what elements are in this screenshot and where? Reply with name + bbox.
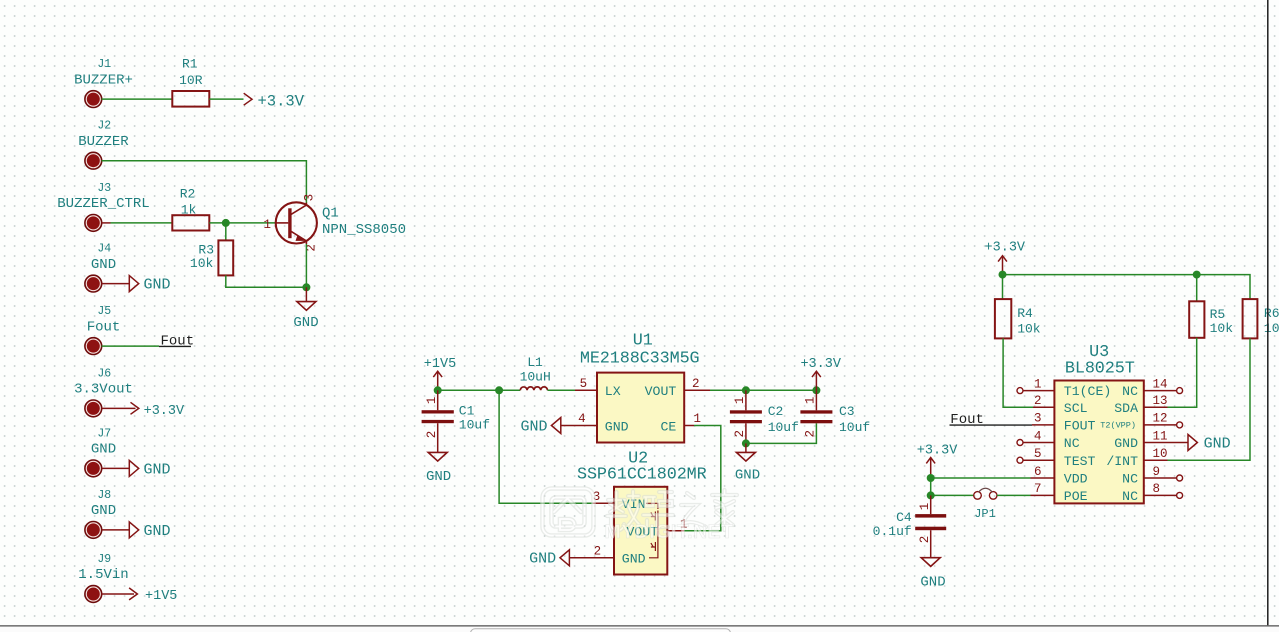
status bar divider bbox=[0, 625, 1279, 627]
connector J1 pad bbox=[85, 91, 102, 108]
svg-text:J9: J9 bbox=[97, 553, 111, 566]
U3 pin 5 stub unconnected bbox=[1023, 459, 1054, 461]
sheet border line bbox=[1267, 0, 1269, 625]
node rail junction R5 bbox=[1193, 271, 1201, 279]
svg-text:MYDIGIT.NET: MYDIGIT.NET bbox=[604, 521, 733, 543]
svg-text:10R: 10R bbox=[179, 73, 203, 88]
resistor R5 bbox=[1189, 301, 1233, 338]
svg-text:1: 1 bbox=[803, 397, 817, 405]
scrollbar track bbox=[0, 627, 1279, 632]
transistor Q1 NPN_SS8050 bbox=[276, 202, 317, 244]
connector J9 pad bbox=[85, 586, 102, 603]
U3 pin 3 stub bbox=[1032, 424, 1054, 426]
wire emitter node to ground bbox=[305, 287, 307, 301]
svg-text:5: 5 bbox=[1034, 447, 1042, 461]
svg-text:1: 1 bbox=[733, 397, 747, 405]
svg-text:3.3Vout: 3.3Vout bbox=[74, 382, 133, 398]
svg-text:LX: LX bbox=[605, 384, 621, 399]
watermark logo bbox=[543, 489, 738, 544]
svg-text:BUZZER+: BUZZER+ bbox=[74, 72, 133, 88]
U3 pin 10 stub bbox=[1144, 459, 1168, 461]
svg-text:GND: GND bbox=[622, 552, 646, 567]
node +3.3V junction R4 bbox=[999, 271, 1007, 279]
svg-text:SDA: SDA bbox=[1114, 401, 1138, 416]
svg-text:GND: GND bbox=[144, 523, 171, 540]
svg-text:GND: GND bbox=[520, 418, 547, 435]
svg-text:+3.3V: +3.3V bbox=[985, 240, 1026, 255]
connector J4 label bbox=[91, 243, 116, 273]
U3 left pin names bbox=[1064, 384, 1111, 504]
hierarchical label GND at U3 pin 11 bbox=[1188, 435, 1231, 453]
svg-text:+3.3V: +3.3V bbox=[800, 357, 841, 372]
connector J1 label bbox=[74, 58, 133, 88]
svg-text:C4: C4 bbox=[896, 510, 912, 525]
U1 CE pin stub bbox=[684, 425, 694, 427]
wire R3 to emitter node bbox=[226, 275, 307, 287]
svg-text:10uf: 10uf bbox=[459, 418, 490, 433]
svg-text:BL8025T: BL8025T bbox=[1065, 360, 1135, 379]
U2 reference labels bbox=[577, 449, 707, 484]
svg-text:J1: J1 bbox=[97, 58, 111, 71]
chip U1 body bbox=[597, 373, 684, 443]
connector J5 pad bbox=[85, 338, 102, 355]
svg-text:5: 5 bbox=[580, 377, 588, 391]
svg-text:R5: R5 bbox=[1210, 307, 1226, 322]
svg-text:10k: 10k bbox=[1210, 321, 1234, 336]
U3 pin 13 stub bbox=[1144, 406, 1168, 408]
connector J7 label bbox=[91, 427, 116, 457]
svg-text:0.1uf: 0.1uf bbox=[873, 524, 912, 539]
resistor R2 bbox=[172, 187, 209, 231]
wire VDD rail bbox=[931, 477, 1031, 479]
U3 right pin names bbox=[1100, 384, 1138, 504]
J4 pin stub bbox=[102, 283, 130, 285]
ground symbol at C1 bbox=[426, 452, 451, 485]
svg-text:POE: POE bbox=[1064, 489, 1088, 504]
svg-text:6: 6 bbox=[1034, 465, 1042, 479]
resistor R6 bbox=[1243, 299, 1279, 338]
J7 pin stub bbox=[102, 467, 130, 469]
hierarchical label GND at J4 bbox=[129, 276, 170, 294]
wire Q1 emitter down bbox=[305, 244, 307, 287]
hierarchical label GND at J8 bbox=[129, 522, 170, 540]
svg-text:C3: C3 bbox=[839, 404, 855, 419]
ground stub at C2 bbox=[745, 443, 747, 452]
svg-text:+3.3V: +3.3V bbox=[258, 92, 305, 110]
connector J7 pad bbox=[85, 460, 102, 477]
svg-text:Q1: Q1 bbox=[322, 205, 339, 221]
U2 VIN pin stub bbox=[593, 502, 614, 504]
svg-text:J5: J5 bbox=[97, 305, 111, 318]
svg-text:CE: CE bbox=[660, 419, 676, 434]
inductor L1 bbox=[520, 355, 551, 390]
ground symbol at C2 bbox=[735, 452, 760, 483]
U2 internal mosfets bbox=[646, 503, 658, 558]
wire R4 bottom to U3 SCL bbox=[1003, 338, 1033, 407]
wire U1 VOUT to +3.3V bbox=[710, 389, 816, 391]
wire +1V5 to L1 bbox=[438, 389, 521, 391]
svg-text:12: 12 bbox=[1153, 412, 1168, 426]
wire J5 pad to Fout label bbox=[102, 345, 160, 347]
J8 pin stub bbox=[102, 529, 130, 531]
connector J8 pad bbox=[85, 522, 102, 539]
wire C2 bottom to C3 bottom bbox=[746, 423, 817, 443]
wire R5 bottom to U3 SDA bbox=[1168, 338, 1197, 407]
node LX branch junction bbox=[495, 386, 503, 394]
connector J6 pad bbox=[85, 400, 102, 417]
U1 LX pin stub bbox=[575, 389, 597, 391]
svg-text:1: 1 bbox=[918, 503, 932, 511]
node +1V5 junction bbox=[434, 386, 442, 394]
svg-text:J7: J7 bbox=[97, 427, 111, 440]
connector J3 label bbox=[57, 182, 149, 212]
svg-text:GND: GND bbox=[1114, 436, 1138, 451]
ground symbol at C4 bbox=[920, 558, 945, 591]
J6 power arrow line bbox=[102, 407, 136, 409]
U1 reference labels bbox=[580, 332, 700, 369]
svg-text:4: 4 bbox=[1034, 429, 1042, 443]
U3 pin 2 stub bbox=[1033, 406, 1054, 408]
U1 VOUT pin stub bbox=[684, 389, 710, 391]
svg-text:2: 2 bbox=[918, 536, 932, 544]
node base junction bbox=[222, 219, 230, 227]
svg-text:NC: NC bbox=[1122, 384, 1138, 399]
svg-text:GND: GND bbox=[144, 277, 171, 294]
resistor R1 bbox=[172, 57, 209, 107]
wire U1 CE to U2 VOUT bbox=[684, 426, 721, 531]
resistor R3 bbox=[190, 240, 233, 275]
wire rail to R4 top bbox=[1002, 275, 1004, 300]
svg-text:J2: J2 bbox=[97, 120, 111, 133]
svg-text:GND: GND bbox=[144, 461, 171, 478]
U3 pin 11 stub bbox=[1144, 442, 1188, 444]
svg-text:BUZZER_CTRL: BUZZER_CTRL bbox=[57, 196, 149, 212]
svg-text:Fout: Fout bbox=[87, 319, 121, 335]
U3 pin 6 stub bbox=[1031, 477, 1055, 479]
svg-text:VOUT: VOUT bbox=[645, 384, 677, 399]
svg-text:GND: GND bbox=[91, 503, 116, 519]
capacitor C4 bbox=[873, 495, 947, 557]
node VDD junction bbox=[927, 474, 935, 482]
svg-text:L1: L1 bbox=[527, 355, 543, 370]
capacitor C3 bbox=[800, 390, 870, 435]
U3 pin 9 stub unconnected bbox=[1144, 477, 1177, 479]
svg-text:1k: 1k bbox=[181, 203, 197, 218]
power +3.3V at C4 bbox=[917, 444, 958, 478]
svg-text:1: 1 bbox=[1034, 377, 1042, 391]
node +3.3V junction mid bbox=[812, 386, 820, 394]
svg-text:3: 3 bbox=[302, 194, 316, 202]
svg-text:GND: GND bbox=[293, 315, 318, 331]
svg-text:SSP61CC1802MR: SSP61CC1802MR bbox=[577, 466, 707, 485]
power +1V5 at J9 bbox=[129, 588, 177, 604]
wire J3 to R2 bbox=[111, 222, 173, 224]
svg-text:2: 2 bbox=[1034, 394, 1042, 408]
svg-text:GND: GND bbox=[91, 257, 116, 273]
U3 pin 4 stub unconnected bbox=[1023, 442, 1054, 444]
svg-text:NC: NC bbox=[1122, 472, 1138, 487]
node C2 top junction bbox=[742, 386, 750, 394]
svg-text:2: 2 bbox=[594, 544, 602, 558]
svg-text:10k: 10k bbox=[190, 256, 214, 271]
svg-text:T2(VPP): T2(VPP) bbox=[1100, 421, 1136, 431]
svg-text:ME2188C33M5G: ME2188C33M5G bbox=[580, 350, 700, 369]
svg-text:R6: R6 bbox=[1264, 306, 1279, 321]
svg-text:R4: R4 bbox=[1017, 306, 1033, 321]
wire +3.3V rail to R6 bbox=[1003, 275, 1251, 300]
hierarchical label GND at J7 bbox=[129, 460, 170, 478]
svg-text:1.5Vin: 1.5Vin bbox=[78, 567, 128, 583]
svg-text:11: 11 bbox=[1153, 429, 1168, 443]
capacitor C1 bbox=[422, 390, 490, 452]
svg-text:J8: J8 bbox=[97, 489, 111, 502]
svg-text:NC: NC bbox=[1122, 489, 1138, 504]
svg-text:4: 4 bbox=[578, 412, 586, 426]
U1 GND pin stub bbox=[561, 425, 597, 427]
svg-text:U1: U1 bbox=[633, 332, 653, 351]
hierarchical label GND at U2 bbox=[529, 550, 569, 568]
svg-text:10: 10 bbox=[1153, 447, 1168, 461]
wire J1 pad to R1 bbox=[102, 98, 173, 100]
wire +3.3V down to POE row bbox=[930, 478, 932, 495]
chip U3 body bbox=[1054, 381, 1143, 504]
svg-text:J6: J6 bbox=[97, 367, 111, 380]
connector J2 label bbox=[78, 120, 129, 150]
svg-text:TEST: TEST bbox=[1064, 454, 1096, 469]
svg-text:+3.3V: +3.3V bbox=[144, 404, 185, 419]
wire rail to R5 top bbox=[1196, 275, 1198, 302]
U3 pin 8 stub unconnected bbox=[1144, 494, 1177, 496]
svg-text:Fout: Fout bbox=[161, 333, 195, 349]
svg-text:1: 1 bbox=[263, 218, 271, 232]
svg-text:C1: C1 bbox=[459, 403, 475, 418]
svg-text:J3: J3 bbox=[97, 182, 111, 195]
svg-text:10uf: 10uf bbox=[768, 420, 799, 435]
wire base node down to R3 bbox=[225, 223, 227, 241]
svg-text:GND: GND bbox=[91, 442, 116, 458]
svg-text:10: 10 bbox=[1264, 321, 1279, 336]
U3 right pin numbers bbox=[1153, 377, 1168, 496]
U3 left pin numbers bbox=[1034, 377, 1042, 496]
svg-text:NC: NC bbox=[1064, 436, 1080, 451]
svg-text:1: 1 bbox=[693, 412, 701, 426]
svg-text:R2: R2 bbox=[180, 187, 196, 202]
svg-text:2: 2 bbox=[733, 430, 747, 438]
jumper JP1 bbox=[974, 488, 997, 521]
svg-text:+1V5: +1V5 bbox=[424, 357, 456, 372]
U3 pin 7 stub bbox=[1031, 494, 1055, 496]
svg-text:SCL: SCL bbox=[1064, 401, 1088, 416]
wire LX branch down to U2 VIN bbox=[499, 390, 593, 503]
svg-text:9: 9 bbox=[1153, 465, 1161, 479]
svg-text:10uf: 10uf bbox=[839, 420, 870, 435]
svg-text:GND: GND bbox=[920, 574, 945, 590]
chip U2 body bbox=[614, 487, 667, 575]
svg-text:JP1: JP1 bbox=[974, 507, 996, 521]
U3 pin 12 stub unconnected bbox=[1144, 424, 1177, 426]
capacitor C2 bbox=[730, 390, 799, 443]
svg-text:J4: J4 bbox=[97, 243, 111, 256]
power +3.3V at J6 bbox=[131, 402, 186, 419]
local label Fout at U3 bbox=[950, 412, 1033, 428]
svg-text:NPN_SS8050: NPN_SS8050 bbox=[322, 222, 406, 238]
svg-text:R1: R1 bbox=[182, 57, 198, 72]
svg-text:14: 14 bbox=[1153, 377, 1168, 391]
svg-text:1: 1 bbox=[425, 397, 439, 405]
connector J2 pad bbox=[85, 152, 102, 169]
node emitter junction bbox=[302, 283, 310, 291]
U2 pin names bbox=[622, 497, 658, 567]
svg-text:FOUT: FOUT bbox=[1064, 419, 1096, 434]
connector J4 pad bbox=[85, 275, 102, 292]
U2 VOUT pin stub bbox=[667, 530, 684, 532]
power +3.3V at J1 bbox=[244, 92, 305, 110]
svg-text:13: 13 bbox=[1153, 394, 1168, 408]
wire JP1 to POE pin bbox=[997, 494, 1031, 496]
wire J2 BUZZER to Q1 collector bbox=[102, 161, 307, 203]
power +3.3V top right bbox=[985, 240, 1026, 274]
wire POE to JP1 bbox=[931, 494, 974, 496]
wire L1 to U1 LX bbox=[548, 389, 576, 391]
svg-text:GND: GND bbox=[1204, 435, 1231, 452]
svg-text:2: 2 bbox=[692, 377, 700, 391]
U2 GND pin stub bbox=[569, 557, 614, 559]
connector J6 label bbox=[74, 367, 133, 397]
svg-text:GND: GND bbox=[735, 467, 760, 483]
svg-text:+1V5: +1V5 bbox=[145, 589, 177, 604]
wire J3 pad stub bbox=[102, 222, 111, 224]
U3 reference labels bbox=[1065, 343, 1135, 379]
resistor R4 bbox=[995, 299, 1041, 338]
svg-text:GND: GND bbox=[529, 551, 556, 568]
local label Fout at J5 bbox=[159, 333, 194, 349]
svg-text:/INT: /INT bbox=[1106, 454, 1138, 469]
connector J9 label bbox=[78, 553, 128, 583]
connector J3 pad bbox=[85, 215, 102, 232]
connector J8 label bbox=[91, 489, 116, 519]
svg-text:GND: GND bbox=[605, 419, 629, 434]
U1 pin names bbox=[605, 384, 677, 434]
svg-text:T1(CE): T1(CE) bbox=[1064, 384, 1111, 399]
svg-text:7: 7 bbox=[1034, 482, 1042, 496]
power +3.3V at C3 bbox=[800, 357, 841, 390]
svg-text:2: 2 bbox=[425, 431, 439, 439]
connector J5 label bbox=[87, 305, 121, 335]
U3 pin 14 stub unconnected bbox=[1144, 390, 1177, 392]
svg-text:Fout: Fout bbox=[950, 412, 984, 428]
svg-text:BUZZER: BUZZER bbox=[78, 134, 129, 150]
Q1 reference labels bbox=[322, 205, 406, 238]
node POE junction bbox=[927, 491, 935, 499]
svg-text:8: 8 bbox=[1153, 482, 1161, 496]
svg-text:10k: 10k bbox=[1017, 322, 1041, 337]
svg-text:3: 3 bbox=[1034, 412, 1042, 426]
U3 pin 1 stub unconnected bbox=[1023, 390, 1054, 392]
svg-text:10uH: 10uH bbox=[520, 369, 551, 384]
J9 power arrow line bbox=[102, 593, 135, 595]
wire R6 bottom to U3 /INT bbox=[1168, 338, 1251, 460]
watermark characters bbox=[607, 491, 639, 531]
hierarchical label GND at U1 bbox=[520, 418, 560, 436]
power +1V5 at C1 bbox=[424, 357, 456, 390]
svg-text:GND: GND bbox=[426, 469, 451, 485]
wire R1 to +3.3V power bbox=[209, 98, 243, 100]
svg-text:2: 2 bbox=[803, 430, 817, 438]
svg-text:VDD: VDD bbox=[1064, 472, 1088, 487]
svg-text:C2: C2 bbox=[768, 404, 784, 419]
svg-text:+3.3V: +3.3V bbox=[917, 444, 958, 459]
scrollbar thumb bbox=[471, 629, 731, 637]
wire R2 to base node bbox=[209, 222, 276, 224]
node C2 bottom junction bbox=[742, 439, 750, 447]
ground symbol at Q1 bbox=[293, 302, 318, 331]
